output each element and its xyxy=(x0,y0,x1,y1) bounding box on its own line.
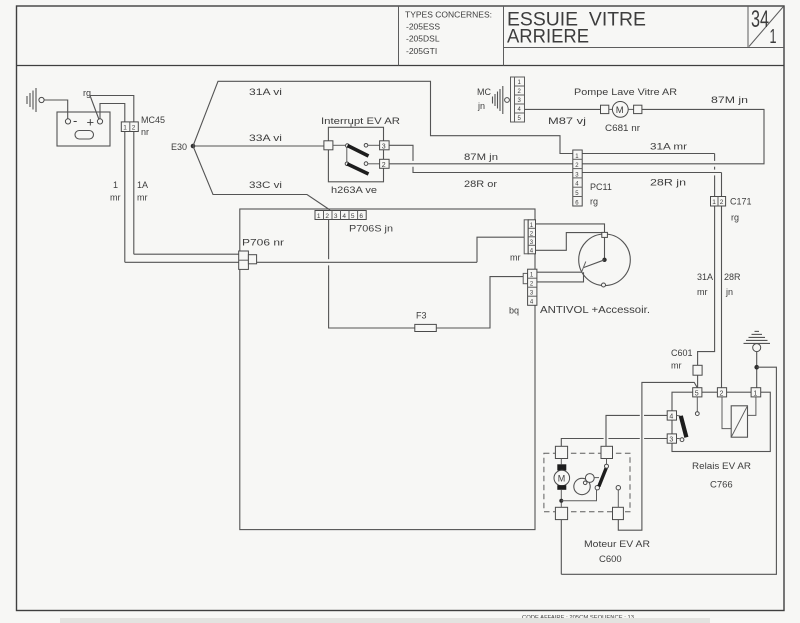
connector MC (5 pins) xyxy=(511,77,525,122)
svg-text:bq: bq xyxy=(509,306,519,316)
svg-text:mr: mr xyxy=(697,287,708,297)
ground (relay) xyxy=(744,331,771,351)
svg-text:1: 1 xyxy=(712,199,716,206)
bottom caption xyxy=(60,615,710,623)
svg-text:nr: nr xyxy=(141,127,149,137)
antivol ignition switch xyxy=(540,232,650,316)
svg-text:rg: rg xyxy=(731,213,739,223)
wire 87M jn (switch pin 2) xyxy=(389,109,764,163)
wire C601 to relay pin5 xyxy=(697,375,699,388)
ground (battery) xyxy=(27,88,44,112)
svg-text:3: 3 xyxy=(334,213,338,220)
wire mr pin4 to antivol top xyxy=(536,233,602,251)
svg-text:1: 1 xyxy=(753,391,757,398)
wire P706 to mr connector xyxy=(477,237,524,262)
svg-text:6: 6 xyxy=(359,213,363,220)
label 1 mr xyxy=(110,180,121,203)
svg-text:E30: E30 xyxy=(171,142,187,152)
svg-text:Pompe Lave Vitre AR: Pompe Lave Vitre AR xyxy=(574,87,678,97)
wire bq pin1 to antivol left xyxy=(537,271,582,273)
label 31A mr (vertical run) xyxy=(697,272,713,297)
motor Moteur EV AR C600 xyxy=(544,446,650,565)
svg-text:31A vi: 31A vi xyxy=(249,87,282,97)
svg-text:PC11: PC11 xyxy=(590,182,612,192)
svg-text:4: 4 xyxy=(342,213,346,220)
svg-text:ARRIERE: ARRIERE xyxy=(507,26,589,48)
svg-text:2: 2 xyxy=(720,199,724,206)
connector bq (4 pins, on box edge) xyxy=(509,269,537,315)
label MC45 nr xyxy=(141,115,165,137)
svg-text:-205ESS: -205ESS xyxy=(406,22,440,32)
connector strip P706S (6 pins) xyxy=(315,211,366,221)
wire battery plus outer (1A) xyxy=(90,96,134,255)
wire M87 vj (MC pin4 to pump) xyxy=(525,108,601,110)
svg-text:1: 1 xyxy=(770,26,777,48)
svg-text:3: 3 xyxy=(382,144,386,151)
svg-text:+: + xyxy=(87,115,95,130)
svg-text:ANTIVOL +Accessoir.: ANTIVOL +Accessoir. xyxy=(540,305,650,316)
svg-text:C601: C601 xyxy=(671,348,693,358)
wire 31A vi xyxy=(193,81,715,153)
svg-text:M87 vj: M87 vj xyxy=(548,116,586,126)
connector MC45 xyxy=(121,122,138,132)
svg-text:87M jn: 87M jn xyxy=(464,152,498,162)
sheet number 34/1 xyxy=(751,6,777,48)
connector C171 rg xyxy=(711,197,752,223)
svg-text:28R jn: 28R jn xyxy=(650,178,686,188)
svg-text:MC: MC xyxy=(477,87,491,97)
svg-text:2: 2 xyxy=(325,213,329,220)
switch Interrupt EV AR h263A xyxy=(321,116,401,195)
svg-text:jn: jn xyxy=(477,101,485,111)
fuse F3 xyxy=(415,311,437,332)
svg-text:mr: mr xyxy=(510,253,521,263)
svg-text:Interrupt EV AR: Interrupt EV AR xyxy=(321,116,401,126)
svg-text:2: 2 xyxy=(132,124,136,131)
wire ground to battery minus xyxy=(44,100,68,119)
svg-text:C171: C171 xyxy=(730,197,752,207)
wire 33C vi xyxy=(193,146,330,210)
wire 1A to P706 pin1 xyxy=(134,253,239,255)
svg-text:33A vi: 33A vi xyxy=(249,133,282,143)
svg-text:87M jn: 87M jn xyxy=(711,95,748,105)
wire ground to relay pin1 xyxy=(756,352,758,388)
svg-text:mr: mr xyxy=(137,193,148,203)
wire 28R jn vertical xyxy=(721,206,723,388)
wire motor bottom-left down xyxy=(560,520,562,575)
title text TYPES CONCERNES xyxy=(405,11,492,57)
svg-text:3: 3 xyxy=(669,437,673,444)
svg-text:1: 1 xyxy=(113,180,118,190)
wire 28R or (switch pin 3) xyxy=(389,145,721,196)
svg-text:M: M xyxy=(558,474,566,484)
connector PC11 rg (6 pins) xyxy=(573,150,612,207)
node (ground branch) xyxy=(754,365,759,370)
svg-text:2: 2 xyxy=(382,162,386,169)
wire motor park contact to relay pin5 xyxy=(618,382,697,530)
connector mr (4 pins, on box edge) xyxy=(510,220,536,263)
svg-text:C600: C600 xyxy=(599,554,622,565)
box P706S xyxy=(240,209,535,530)
svg-text:34: 34 xyxy=(751,6,769,33)
svg-text:TYPES CONCERNES:: TYPES CONCERNES: xyxy=(405,11,492,20)
svg-text:28R: 28R xyxy=(724,272,741,282)
svg-text:1: 1 xyxy=(123,124,127,131)
wire bq pin2 to antivol left xyxy=(537,272,584,282)
battery xyxy=(57,112,110,146)
svg-text:33C vi: 33C vi xyxy=(249,180,282,190)
svg-text:5: 5 xyxy=(695,391,699,398)
svg-text:-205DSL: -205DSL xyxy=(406,34,440,44)
svg-text:Relais EV AR: Relais EV AR xyxy=(692,461,751,472)
wire battery plus inner (1) xyxy=(100,104,125,263)
svg-text:mr: mr xyxy=(110,193,121,203)
svg-text:F3: F3 xyxy=(416,311,427,321)
wire 33A vi xyxy=(193,145,326,147)
svg-text:1: 1 xyxy=(317,213,321,220)
wire 31A mr vertical xyxy=(698,154,715,366)
svg-text:-: - xyxy=(73,113,77,128)
svg-text:P706 nr: P706 nr xyxy=(242,238,284,248)
svg-text:28R or: 28R or xyxy=(464,179,497,189)
svg-text:31A: 31A xyxy=(697,272,713,282)
wire strip pin2 down to F3 xyxy=(329,220,415,329)
svg-text:4: 4 xyxy=(669,414,673,421)
wire F3 to bq connector xyxy=(436,277,523,328)
wire ground branch to motor bottom xyxy=(561,367,776,574)
title block dividers xyxy=(399,6,785,66)
svg-text:mr: mr xyxy=(671,361,682,371)
wire relay pin4 to motor xyxy=(606,415,667,446)
relay Relais EV AR C766 xyxy=(667,388,770,491)
wire 1 to P706 pin2 and into box xyxy=(125,261,477,263)
connector P706 nr xyxy=(239,238,284,270)
wire mr pin1 to antivol top xyxy=(536,224,605,233)
svg-text:jn: jn xyxy=(725,287,733,297)
svg-text:2: 2 xyxy=(720,391,724,398)
svg-text:-205GTI: -205GTI xyxy=(406,46,437,56)
svg-text:1A: 1A xyxy=(137,180,148,190)
svg-text:M: M xyxy=(616,105,624,116)
svg-text:h263A ve: h263A ve xyxy=(331,185,377,195)
svg-text:C766: C766 xyxy=(710,480,733,491)
node E30 xyxy=(171,142,195,152)
svg-text:Moteur EV AR: Moteur EV AR xyxy=(584,539,650,550)
wire relay pin3 to motor xyxy=(561,439,667,447)
svg-text:31A mr: 31A mr xyxy=(650,142,687,152)
ground MC jn xyxy=(477,86,509,114)
label 1A mr xyxy=(137,180,148,203)
connector C601 mr xyxy=(671,348,702,375)
pump Pompe Lave Vitre AR C681 xyxy=(574,87,678,133)
svg-text:5: 5 xyxy=(351,213,355,220)
svg-text:MC45: MC45 xyxy=(141,115,165,125)
svg-text:rg: rg xyxy=(590,197,598,207)
svg-text:P706S jn: P706S jn xyxy=(349,224,393,234)
svg-text:C681 nr: C681 nr xyxy=(605,123,640,133)
label 28R jn (vertical run) xyxy=(724,272,741,297)
title ESSUIE VITRE ARRIERE xyxy=(507,9,646,48)
